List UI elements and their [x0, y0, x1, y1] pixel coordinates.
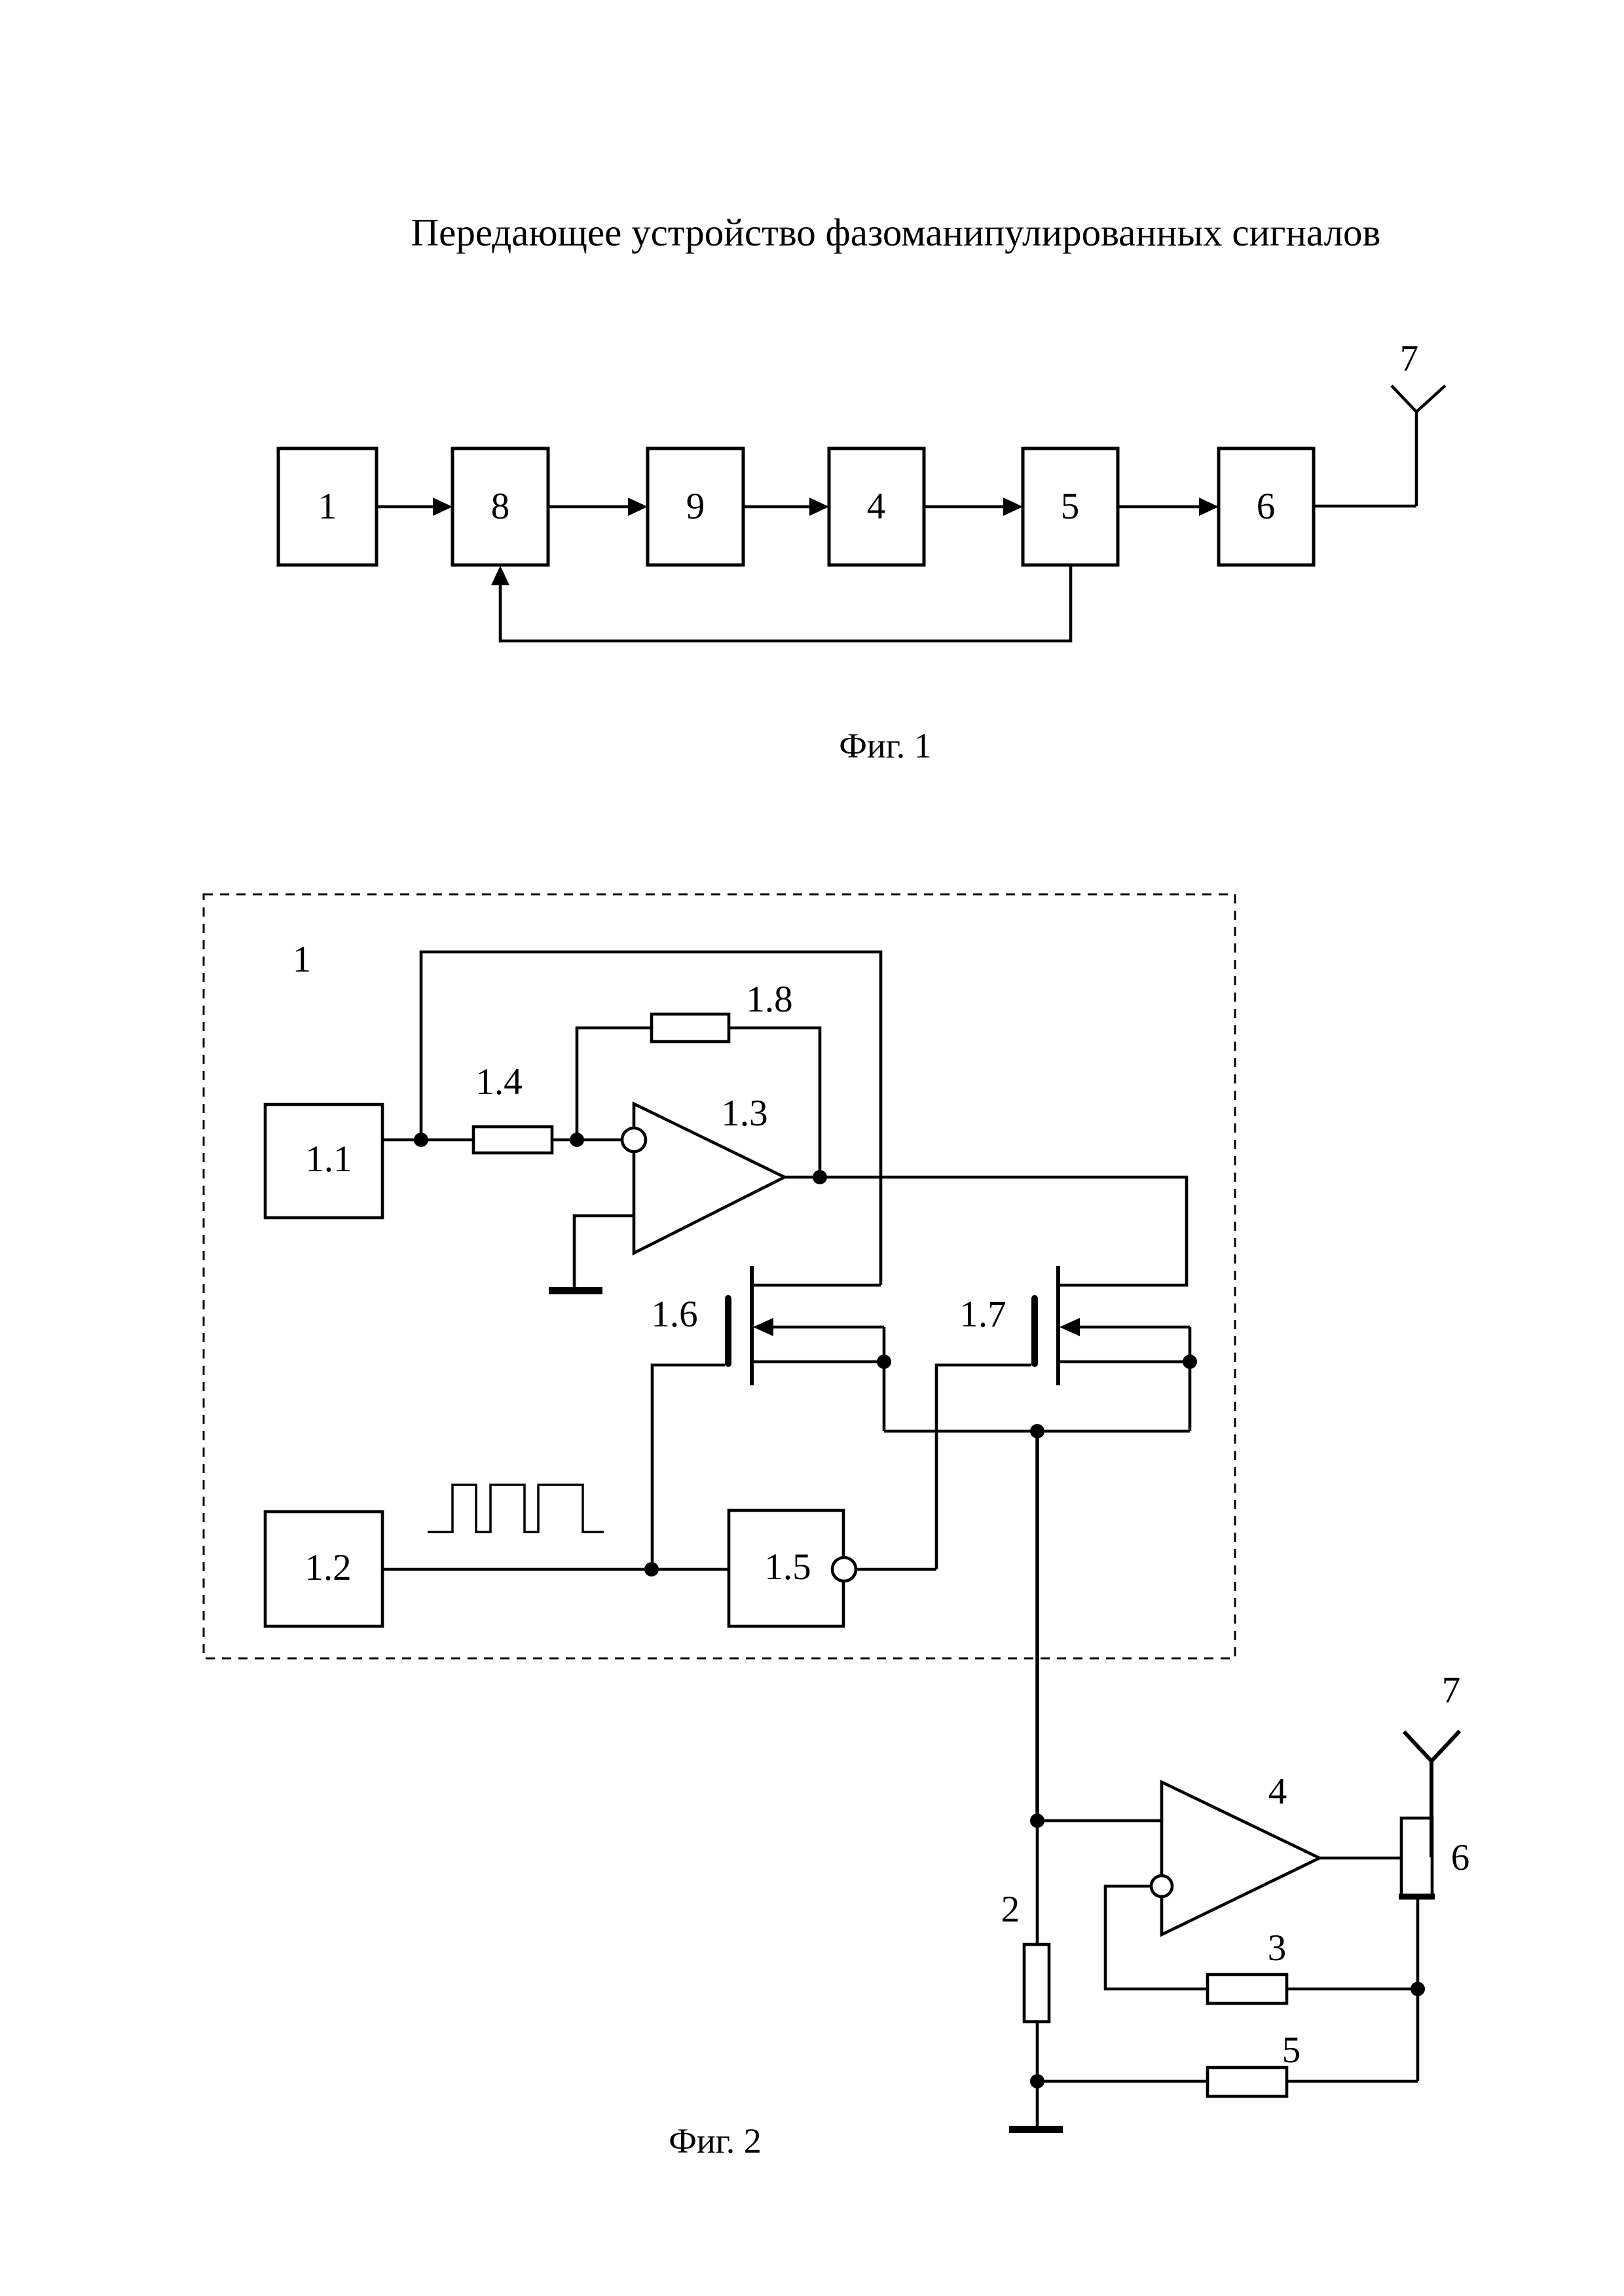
wire top rail node A to drain 1.6 — [421, 952, 881, 1285]
source rail between 1.6 and 1.7 — [884, 1430, 1190, 1433]
antenna 7 fig2 — [1404, 1731, 1460, 1857]
antenna 7 fig1 — [1392, 386, 1445, 506]
block 1 — [278, 448, 377, 565]
block 1.5 — [729, 1510, 843, 1626]
wire R5 to riser — [1287, 2080, 1418, 2083]
node dot on source rail — [1030, 1424, 1044, 1438]
svg-text:5: 5 — [1282, 2030, 1301, 2071]
node dot source 1.6 — [877, 1355, 891, 1369]
svg-text:5: 5 — [1061, 486, 1080, 527]
svg-text:Фиг. 1: Фиг. 1 — [839, 726, 932, 765]
main drop wire to lower circuit — [1035, 1431, 1039, 1821]
svg-text:4: 4 — [1268, 1771, 1287, 1812]
inverting input bubble 4 — [1151, 1876, 1172, 1897]
block 9 — [648, 448, 743, 565]
op-amp 1.3 — [634, 1093, 784, 1253]
wire to ground fig2 — [1036, 2081, 1039, 2126]
svg-text:1.6: 1.6 — [651, 1294, 697, 1335]
dashed box unit 1 — [204, 894, 1235, 1658]
node B dot — [570, 1133, 584, 1147]
feedback wire 5 to 8 — [491, 565, 1071, 641]
transistor 1.6 — [651, 1266, 884, 1385]
svg-text:6: 6 — [1451, 1837, 1470, 1878]
svg-text:1.4: 1.4 — [475, 1061, 522, 1102]
resistor 5 — [1208, 2030, 1301, 2096]
square wave symbol — [428, 1485, 604, 1532]
svg-text:7: 7 — [1400, 338, 1419, 379]
svg-text:8: 8 — [491, 486, 510, 527]
wire node to R5 — [1037, 2080, 1208, 2083]
riser 6 to R5 wire — [1416, 1898, 1420, 2081]
gate lead 1.7 to 1.5 output wire — [936, 1365, 1031, 1569]
op-amp 4 — [1162, 1771, 1319, 1935]
svg-text:1: 1 — [318, 486, 337, 527]
svg-text:Фиг. 2: Фиг. 2 — [669, 2121, 762, 2160]
resistor 1.8 — [652, 979, 793, 1042]
wire 6 to antenna — [1314, 505, 1416, 508]
transistor 1.7 — [959, 1266, 1190, 1385]
wire 8 to 9 — [548, 498, 648, 516]
wire 9 to 4 — [743, 498, 829, 516]
matching unit 6 — [1399, 1818, 1469, 1898]
ground fig2 — [1009, 2126, 1063, 2133]
wire R1.8 to output node — [729, 1028, 820, 1177]
svg-text:2: 2 — [1001, 1889, 1020, 1930]
svg-text:9: 9 — [686, 486, 705, 527]
wire to op-amp 4 input — [1037, 1819, 1162, 1823]
wire R1.4 to op-amp input — [552, 1139, 623, 1142]
svg-text:1.5: 1.5 — [764, 1546, 811, 1588]
block 1.1 — [265, 1104, 382, 1218]
wire 1.1 to R1.4 — [382, 1139, 473, 1142]
svg-text:1: 1 — [293, 939, 312, 980]
svg-text:6: 6 — [1257, 486, 1276, 527]
resistor 2 — [1001, 1821, 1049, 2081]
block 8 — [452, 448, 548, 565]
svg-text:1.7: 1.7 — [959, 1294, 1006, 1335]
node dot R3/R5/6 — [1411, 1982, 1425, 1996]
wire 1.2 to 1.5 — [382, 1568, 729, 1571]
node dot input op-amp 4 — [1030, 1813, 1044, 1828]
svg-text:1.2: 1.2 — [304, 1547, 351, 1588]
node A dot — [414, 1133, 428, 1147]
wire bubble 4 to R3 — [1105, 1886, 1208, 1989]
svg-text:1.1: 1.1 — [305, 1139, 352, 1180]
resistor 3 — [1208, 1927, 1287, 2003]
svg-text:Передающее устройство фазомани: Передающее устройство фазоманипулированн… — [411, 211, 1381, 254]
wire op-amp 4 output to 6 — [1319, 1857, 1401, 1860]
block 4 — [829, 448, 924, 565]
block 1.2 — [265, 1512, 382, 1626]
wire 4 to 5 — [924, 498, 1023, 516]
wire R3 to node — [1287, 1988, 1418, 1991]
block 5 — [1023, 448, 1118, 565]
wire 5 to 6 — [1118, 498, 1219, 516]
svg-text:1.8: 1.8 — [746, 979, 792, 1020]
inverter bubble 1.5 — [832, 1558, 856, 1581]
gate lead 1.6 to node on 1.2 wire — [652, 1365, 725, 1569]
block 6 — [1219, 448, 1314, 565]
svg-text:7: 7 — [1442, 1669, 1461, 1711]
wire arrow 1.6 down to rail — [883, 1327, 886, 1431]
wire 1.5 output — [856, 1568, 936, 1571]
output node dot 1.3 — [813, 1170, 827, 1184]
wire 1 to 8 — [377, 498, 452, 516]
non-inverting input wire 1.3 — [574, 1216, 634, 1288]
output wire 1.3 to drain 1.7 — [784, 1177, 1187, 1285]
node dot on 1.2 wire — [644, 1562, 659, 1576]
node dot above ground — [1030, 2074, 1044, 2088]
node dot source 1.7 — [1183, 1355, 1197, 1369]
svg-text:4: 4 — [867, 486, 886, 527]
resistor 1.4 — [473, 1061, 552, 1153]
wire arrow 1.7 down to rail — [1189, 1327, 1192, 1431]
svg-text:3: 3 — [1268, 1927, 1287, 1969]
ground under 1.3 — [549, 1287, 602, 1294]
svg-text:1.3: 1.3 — [721, 1093, 767, 1134]
wire node B to R1.8 — [577, 1028, 652, 1140]
inverting input bubble 1.3 — [622, 1128, 646, 1152]
